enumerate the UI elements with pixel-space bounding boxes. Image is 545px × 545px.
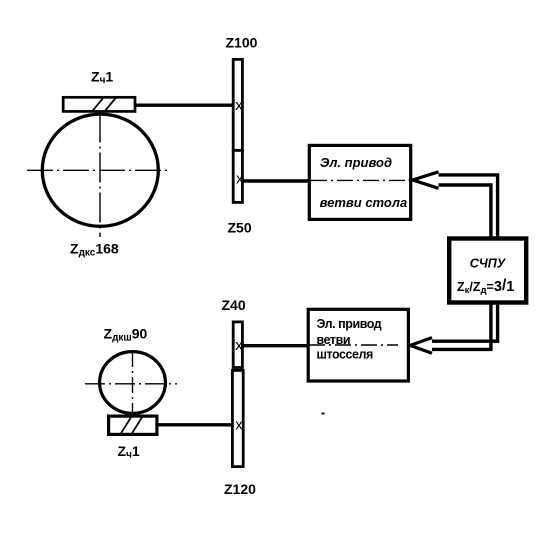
svg-text:Эл. привод: Эл. привод: [320, 155, 392, 170]
wire rack2 to drive box 2: [243, 344, 309, 347]
centerline vertical (wheel Zдкс168): [99, 113, 101, 238]
svg-text:Zдкс168: Zдкс168: [70, 241, 119, 259]
hatch lines worm Zч1 (bottom): [121, 417, 132, 434]
centerline through drive box 2: [309, 344, 398, 346]
svg-text:ветви: ветви: [317, 333, 351, 347]
open arrowhead to box 2: [410, 338, 432, 354]
wire worm1 to rack1: [134, 104, 234, 107]
centerline horizontal (wheel Zдкс168): [27, 169, 171, 171]
centerline through drive box 1: [311, 179, 411, 181]
svg-text:Z100: Z100: [226, 35, 258, 51]
rack segment Z120: [232, 370, 243, 466]
drive box 2 (Эл. привод ветви штосселя): [308, 309, 408, 381]
open arrowhead to box 1: [413, 172, 439, 189]
gear wheel Zдкш90: [100, 352, 166, 414]
svg-text:x: x: [235, 417, 243, 434]
rack segment Z50: [233, 150, 242, 202]
rack segment Z100: [233, 59, 242, 150]
worm Zч1 (bottom): [109, 416, 157, 434]
svg-text:Z120: Z120: [224, 481, 256, 497]
rack segment Z40: [233, 322, 242, 368]
svg-text:Z50: Z50: [228, 220, 252, 236]
svg-text:штосселя: штосселя: [317, 347, 373, 361]
centerline horizontal (wheel Zдкш90): [85, 383, 177, 385]
control link СЧПУ to box 2 (double line): [429, 303, 498, 341]
hatch lines worm Zч1 (top): [92, 98, 104, 112]
wire worm2 to rack2: [157, 423, 233, 426]
svg-text:x: x: [236, 170, 244, 187]
svg-text:СЧПУ: СЧПУ: [470, 256, 507, 270]
svg-text:Z40: Z40: [222, 297, 246, 313]
gear wheel Zдкс168: [42, 114, 158, 226]
stray dot: [321, 413, 324, 415]
CNC box СЧПУ: [449, 239, 526, 303]
svg-text:ветви стола: ветви стола: [320, 195, 408, 210]
worm Zч1 (top): [63, 97, 135, 111]
wire rack1 to drive box 1: [241, 179, 309, 183]
centerline vertical (wheel Zдкш90): [132, 351, 134, 416]
svg-text:x: x: [235, 97, 243, 114]
control link СЧПУ to box 1 (double line): [437, 175, 498, 237]
svg-text:x: x: [235, 337, 243, 354]
drive box 1 (Эл. привод ветви стола): [309, 145, 410, 219]
svg-text:Эл. привод: Эл. привод: [317, 317, 382, 331]
